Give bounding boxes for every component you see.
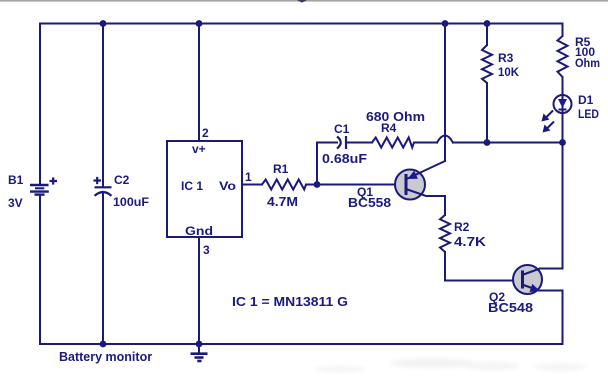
svg-text:Gnd: Gnd [185,224,213,238]
svg-text:C1: C1 [334,122,350,136]
wire C2 top drop [102,24,104,187]
node A junction dot R1/C1/Q1 [314,181,321,188]
node junction dot C2 bottom [100,341,107,348]
ground [191,354,208,361]
top edge cropped-text artifact [297,0,307,3]
wire IC pin1 to R1 [242,184,262,186]
faint artifact smudge bottom right [314,359,586,373]
svg-text:Vo: Vo [219,179,236,193]
node junction dot LED bottom [559,139,566,146]
battery plus sign [50,177,58,184]
wire R4 to hop [414,142,437,144]
wire IC pin3 to ground rail [198,237,200,344]
svg-text:BC558: BC558 [348,195,391,210]
wire top supply rail [40,23,563,25]
D1 light arrow 2 [543,122,555,133]
svg-text:4.7K: 4.7K [454,234,487,249]
resistor R4 [372,138,414,148]
svg-text:IC 1 = MN13811 G: IC 1 = MN13811 G [232,295,348,309]
capacitor C1 [337,136,346,149]
wire top rail right corner to R5 [562,24,564,37]
wire hop over emitter line [437,136,453,143]
wire Q1 collector to R2 [444,196,446,215]
svg-text:B1: B1 [8,173,24,187]
resistor R2 [440,215,450,252]
svg-text:R3: R3 [498,51,514,65]
resistor R5 [558,36,568,77]
svg-text:R1: R1 [273,162,289,176]
svg-text:2: 2 [202,126,209,140]
node junction dot IC v+ top [196,20,203,27]
D1 light arrow 1 [542,111,554,122]
wire battery bottom drop [39,195,41,344]
node junction dot Q1 emitter top [442,20,449,27]
wire R3 bottom [486,83,488,143]
svg-text:3V: 3V [8,196,23,210]
C2 plus sign [94,177,102,184]
svg-text:v+: v+ [192,142,206,156]
wire Q2 emitter horizontal [539,290,563,292]
svg-text:4.7M: 4.7M [267,194,298,209]
svg-text:IC 1: IC 1 [181,179,203,193]
wire IC pin2 drop [198,24,200,142]
top border artifact line [0,0,608,2]
wire Q2 collector horizontal [540,268,563,270]
wire C1 to R4 [347,142,372,144]
wire R1 to Q1 base [306,184,404,186]
node junction dot R3 bottom [484,139,491,146]
svg-text:3: 3 [203,243,210,257]
svg-text:Battery monitor: Battery monitor [59,350,152,364]
resistor R3 [482,45,492,83]
node junction dot C2 top [100,20,107,27]
node junction dot ground [196,341,203,348]
battery B1 [30,185,49,195]
svg-text:LED: LED [578,107,599,121]
wire Q2 emitter down to ground rail [562,291,564,345]
svg-text:D1: D1 [578,93,594,107]
wire hop to LED node [453,142,563,144]
svg-text:BC548: BC548 [488,300,533,315]
svg-text:C2: C2 [114,173,130,187]
LED D1 [554,95,572,113]
wire R5 to LED through LED node [562,77,564,143]
wire node A riser to C1 [317,143,337,185]
svg-text:R4: R4 [381,121,397,135]
wire C2 bottom drop [102,192,104,344]
svg-text:1: 1 [245,170,252,184]
svg-text:Ohm: Ohm [575,56,600,70]
wire R2 to Q2 base [445,252,521,281]
svg-text:0.68uF: 0.68uF [322,151,367,166]
op-amp U1 IC box [167,141,242,237]
wire bottom ground rail [40,343,563,345]
resistor R1 [262,180,306,190]
transistor Q1 [395,161,445,200]
capacitor C2 [95,187,112,196]
node junction dot R3 top [484,20,491,27]
wire battery top drop [39,24,41,185]
svg-text:R2: R2 [454,220,470,234]
wire Q1 emitter riser to top rail [444,24,446,162]
wire LED node down to Q2 collector [562,143,564,269]
svg-text:10K: 10K [498,65,519,79]
wire ground stub [198,344,200,353]
svg-text:100uF: 100uF [113,195,149,209]
wire R3 top [486,24,488,46]
transistor Q2 [513,265,542,294]
